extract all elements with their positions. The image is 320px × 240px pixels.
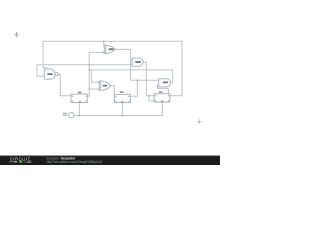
- wire AND3 lower input loop to FF3: [158, 85, 169, 94]
- label U4: [163, 82, 169, 84]
- wire Q0 branch horizontal net: [37, 64, 132, 66]
- wire G2 upper input stub: [131, 58, 133, 60]
- wire top feedback loop: [43, 41, 182, 96]
- wire G1 lower input feed: [37, 65, 44, 77]
- junction node Q0 to XOR2 lower input: [88, 88, 90, 90]
- svg-text:http://circuitlab.com/c/3bng69: http://circuitlab.com/c/3bng69386qk44/: [47, 160, 103, 164]
- wire G1 output to FF1 D: [58, 74, 71, 96]
- grid handle top-left: [14, 32, 19, 37]
- component value labels (dark smudges): [47, 48, 168, 115]
- flip-flop FF3: [154, 94, 170, 102]
- wire Q0 vertical from FF1 Q: [87, 52, 106, 96]
- junction node top wire to XOR1: [103, 40, 105, 42]
- junction node clock bus FF2: [121, 115, 123, 117]
- label XOR1: [109, 48, 114, 50]
- junction node Q0 at y64.7: [88, 64, 90, 66]
- wire G2 output to FF3 D: [143, 62, 154, 96]
- footer logo LAB row: [9, 160, 32, 164]
- label G2: [135, 61, 141, 63]
- label G1: [47, 73, 52, 75]
- wire XOR2 output to FF2 D: [111, 86, 115, 97]
- gate G2 AND: [132, 58, 143, 66]
- wire XOR2 bottom input feed: [89, 88, 100, 90]
- wire FF3 second pin branch: [149, 96, 154, 101]
- gate XOR2: [100, 81, 111, 91]
- footer bar: [0, 156, 220, 165]
- gate XOR1: [105, 45, 115, 53]
- label V1 clock text: [63, 113, 67, 114]
- footer title text: [47, 156, 76, 160]
- label FF2: [120, 91, 124, 93]
- junction node clock bus FF1: [78, 115, 80, 117]
- wire FF1 clock drop: [78, 103, 80, 116]
- wire XOR2 top input feed: [91, 70, 100, 82]
- wire clock bus: [74, 102, 162, 116]
- footer logo CIRCUIT: [10, 156, 31, 161]
- junction node FF3 D branch: [148, 95, 150, 97]
- junction node Q0 at y69.9: [88, 69, 90, 71]
- clock source V1: [69, 113, 74, 118]
- svg-text:-LAB: -LAB: [23, 160, 32, 164]
- label FF3: [159, 91, 163, 93]
- pin marks FF1 (D, Q, clock triangle, PRE, CLR): [72, 96, 87, 103]
- wire FF2 clock drop: [121, 103, 123, 116]
- wire AND3 output loop horizontal: [89, 70, 173, 83]
- wire XOR1 top input drop: [104, 41, 105, 45]
- wire left vertical from top loop: [43, 41, 47, 69]
- pin marks FF2 (D, Q, clock triangle, PRE, CLR): [115, 96, 129, 103]
- grid handle bottom-right: [197, 119, 201, 124]
- wire Q1 riser from FF2 Q: [130, 80, 137, 96]
- footer url text: [47, 160, 103, 164]
- gate G1: [44, 69, 55, 79]
- junction node Q1 riser: [136, 79, 138, 81]
- gate U4 AND: [159, 79, 171, 87]
- flip-flop FF1: [71, 94, 87, 102]
- flip-flop FF2: [115, 94, 131, 102]
- label FF1: [78, 92, 82, 94]
- wire XOR1 output down to AND3 input: [115, 49, 158, 80]
- label XOR2: [103, 85, 108, 87]
- pin marks FF3 (D, Q, clock triangle, PRE, CLR): [155, 95, 169, 102]
